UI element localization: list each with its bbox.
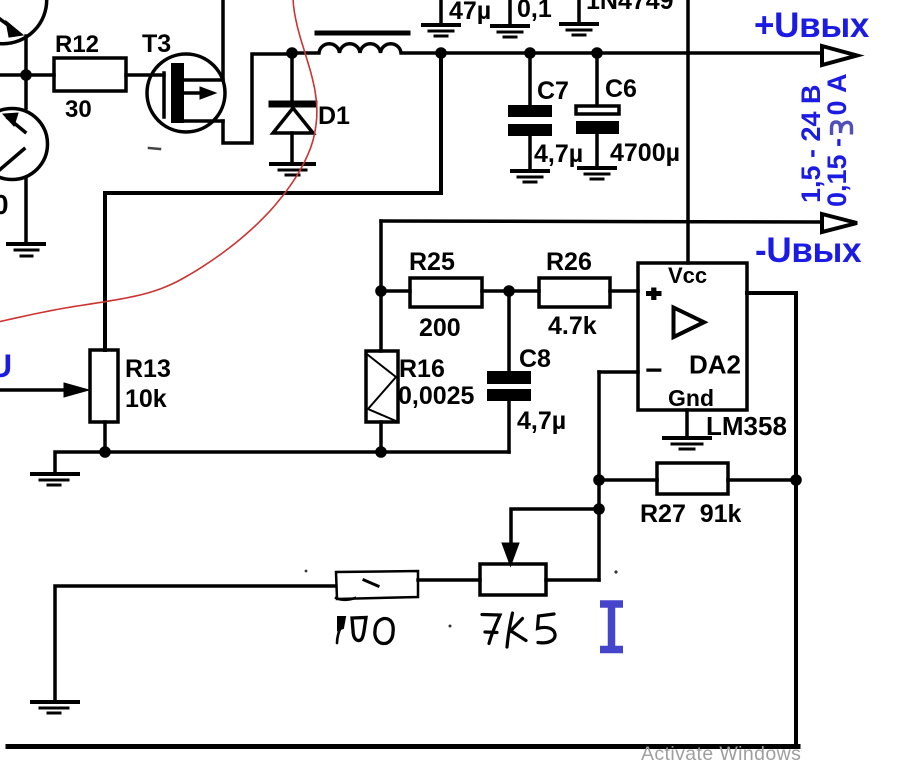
svg-text:U: U — [0, 348, 12, 384]
svg-text:T3: T3 — [142, 30, 171, 58]
potentiometer 7k5 — [480, 564, 546, 595]
wire pot left to R100 — [418, 578, 480, 582]
capacitor top stub 0,1 — [508, 0, 512, 24]
ground (1N4749) — [561, 24, 597, 35]
svg-text:0,15 - 0 А: 0,15 - 0 А — [822, 73, 852, 207]
node J (R27 right) — [790, 474, 802, 486]
stray speck near 7K5 — [449, 625, 452, 628]
node D (R25/R16) — [375, 285, 387, 297]
wire pot right to node I — [546, 578, 599, 582]
ground rail wire — [55, 452, 509, 472]
arrow -Uout — [822, 214, 857, 232]
wire left edge to junction — [0, 73, 54, 77]
svg-text:Activate Windows: Activate Windows — [641, 743, 801, 761]
svg-text:0,1: 0,1 — [517, 0, 552, 23]
stray speck near R100 — [305, 570, 308, 573]
svg-text:DA2: DA2 — [689, 350, 741, 380]
handwritten 7K5 — [482, 613, 555, 647]
arrow input U to R13 — [0, 388, 68, 392]
ground (below D1) — [271, 164, 314, 175]
resistor 100 (hand drawn) — [336, 571, 418, 599]
diode D1 — [272, 104, 314, 133]
wire T3 source to node A — [223, 54, 292, 143]
resistor R13 — [90, 350, 118, 422]
capacitor C6 (electrolytic) — [595, 53, 599, 105]
node F (ground rail R16) — [375, 446, 387, 458]
stray pen dash near T3 — [149, 148, 160, 149]
wire D1 anode down — [290, 133, 294, 162]
svg-text:LM358: LM358 — [706, 411, 787, 441]
svg-text:-Uвых: -Uвых — [755, 231, 862, 270]
node I (wiper) — [593, 503, 605, 515]
node at base wire — [20, 69, 32, 81]
arrow +Uout — [822, 46, 857, 65]
resistor R12 — [54, 58, 126, 91]
wire R12 to T3 gate — [126, 73, 164, 77]
svg-text:Gnd: Gnd — [668, 385, 714, 411]
wire Vcc vertical to DA2 — [686, 0, 690, 263]
node A (T3/D1/inductor) — [286, 47, 298, 59]
wire down to R13 — [103, 193, 107, 350]
wire down to R25 node — [379, 221, 383, 291]
capacitor C7 — [528, 53, 532, 105]
capacitor C8 — [487, 371, 531, 384]
svg-text:R27 91k: R27 91k — [640, 500, 742, 528]
ground (47u) — [423, 25, 459, 36]
resistor R27 — [599, 478, 657, 482]
svg-text:0,0025: 0,0025 — [398, 382, 475, 410]
wire wiper of pot 7k5 — [511, 509, 599, 556]
wire bottom rail — [8, 744, 798, 749]
svg-text:4,7µ: 4,7µ — [534, 140, 583, 168]
svg-text:C8: C8 — [519, 345, 551, 373]
ground (C6) — [579, 168, 615, 179]
svg-text:R26: R26 — [546, 248, 592, 276]
wire -Uout — [381, 221, 820, 222]
svg-text:47µ: 47µ — [449, 0, 491, 25]
resistor R25 — [381, 289, 410, 293]
node C6 — [591, 47, 603, 59]
svg-text:0: 0 — [0, 189, 9, 220]
node E (R25/R26/C8) — [503, 285, 515, 297]
stray speck near pot — [614, 570, 617, 573]
ground (C7) — [512, 171, 548, 182]
resistor R16 (shunt) — [379, 291, 383, 351]
op-amp DA2 body — [638, 263, 747, 410]
wire T3 drain up to top edge — [221, 0, 225, 80]
svg-text:4700µ: 4700µ — [610, 139, 680, 167]
svg-text:200: 200 — [419, 314, 461, 342]
svg-text:4.7k: 4.7k — [548, 312, 597, 340]
svg-text:1N4749: 1N4749 — [586, 0, 674, 15]
svg-text:Vcc: Vcc — [668, 263, 707, 288]
inductor L1 — [292, 44, 441, 53]
wire node E down to C8 — [507, 291, 511, 371]
ground (below Q2) — [8, 244, 44, 256]
ground (bottom left) — [32, 702, 78, 713]
svg-text:C6: C6 — [605, 75, 637, 103]
ground (DA2) — [664, 438, 710, 449]
wire DA2 inverting input — [599, 370, 638, 374]
node C7 — [524, 47, 536, 59]
wire node A down to D1 — [290, 53, 294, 100]
label + (DA2 input) — [646, 291, 662, 296]
transistor Q1 (top-left, cut by edge) — [0, 0, 47, 44]
red circle annotation — [0, 0, 317, 322]
wire Q2 emitter down — [24, 178, 28, 243]
transistor Q2 (left edge, cut) — [0, 109, 48, 180]
wire DA2 output — [747, 293, 796, 744]
svg-text:R12: R12 — [55, 31, 99, 58]
zener stub 1N4749 — [577, 0, 581, 22]
op-amp triangle symbol — [674, 308, 705, 338]
ground (0,1) — [492, 26, 528, 37]
transistor T3 (MOSFET) — [147, 54, 225, 132]
svg-text:R25: R25 — [409, 248, 455, 276]
svg-text:R16: R16 — [399, 355, 445, 383]
wire R100 left to ground — [55, 586, 335, 700]
handwritten 100 — [337, 617, 393, 644]
svg-text:+Uвых: +Uвых — [754, 6, 870, 45]
wire node B down — [439, 53, 443, 193]
svg-text:R13: R13 — [125, 355, 171, 383]
svg-text:−: − — [645, 354, 663, 387]
inductor L1 core bar — [317, 31, 408, 36]
svg-text:C7: C7 — [537, 77, 569, 105]
main output wire +U — [441, 51, 820, 55]
node H (R27 left) — [593, 474, 605, 486]
svg-text:10k: 10k — [125, 385, 167, 413]
hand-drawn 3 (rotated, light blue) — [832, 122, 852, 135]
ground (rail left) — [32, 474, 78, 485]
wire DA2 gnd — [685, 410, 689, 436]
wire bottom of loop — [105, 191, 441, 195]
node G (R13 bottom) — [99, 446, 111, 458]
capacitor top stub 47u — [439, 0, 443, 23]
svg-text:30: 30 — [65, 96, 92, 123]
node B — [435, 47, 447, 59]
resistor R26 — [539, 278, 610, 307]
wire vertical between Q1 and Q2 — [24, 36, 28, 108]
svg-text:4,7µ: 4,7µ — [517, 407, 566, 435]
hand cursor I (blue) — [600, 604, 623, 650]
svg-text:D1: D1 — [318, 102, 350, 130]
